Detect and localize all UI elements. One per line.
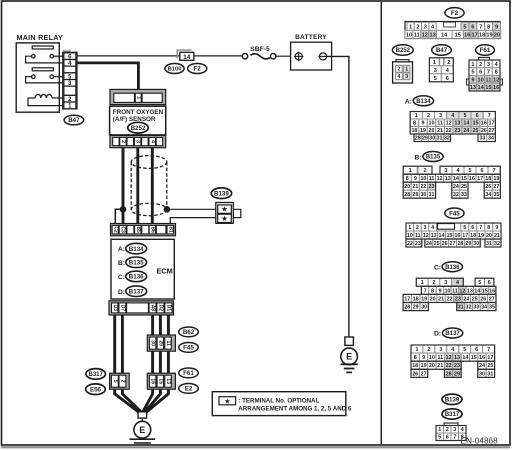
svg-text:5: 5 xyxy=(438,435,441,441)
svg-text:30: 30 xyxy=(479,371,485,377)
connector E56 oval label xyxy=(86,384,106,395)
svg-text:2: 2 xyxy=(424,168,427,174)
svg-text:29: 29 xyxy=(465,241,471,247)
svg-text:12: 12 xyxy=(446,355,452,361)
svg-text:9: 9 xyxy=(495,24,498,30)
connector pinout F45 grid xyxy=(406,223,501,247)
connector B317 oval label xyxy=(86,369,106,380)
svg-text:30: 30 xyxy=(420,192,426,198)
svg-text:12: 12 xyxy=(493,77,499,83)
svg-text:23: 23 xyxy=(454,128,460,134)
svg-text:10: 10 xyxy=(478,77,484,83)
ground E (ECM side) earth bars xyxy=(130,439,156,443)
svg-text:24: 24 xyxy=(463,128,469,134)
connector pinout B47 oval xyxy=(432,45,452,55)
svg-text:11: 11 xyxy=(429,176,435,182)
svg-text:22: 22 xyxy=(446,128,452,134)
svg-text:2: 2 xyxy=(479,62,482,68)
ground E (battery side) earth bars xyxy=(341,364,358,372)
svg-text:B5: B5 xyxy=(135,226,141,233)
svg-text:B100: B100 xyxy=(168,67,182,73)
connector pinout B: B135 grid xyxy=(403,166,500,198)
svg-text:13: 13 xyxy=(470,85,476,91)
wire: ECM pin D1 down through F45 (thick) xyxy=(167,315,170,375)
svg-text:2: 2 xyxy=(446,427,449,433)
svg-text:17: 17 xyxy=(471,32,477,38)
svg-text:6: 6 xyxy=(479,70,482,76)
svg-text:25: 25 xyxy=(487,363,493,369)
wire: B139 shorting loop xyxy=(233,209,241,217)
svg-text:A:: A: xyxy=(118,246,125,253)
svg-text:24: 24 xyxy=(463,296,469,302)
svg-text:7: 7 xyxy=(487,347,490,353)
wire: connector 14 to fuse SBF-5 xyxy=(194,55,243,57)
svg-text:19: 19 xyxy=(421,296,427,302)
svg-text:11: 11 xyxy=(414,32,420,38)
in-line connector 14 (B100/F2) xyxy=(177,50,194,62)
svg-text:F2: F2 xyxy=(194,66,202,73)
svg-text:16: 16 xyxy=(481,121,487,127)
svg-text:★: ★ xyxy=(221,214,228,223)
svg-text:B137: B137 xyxy=(445,331,460,337)
svg-text:22: 22 xyxy=(407,241,413,247)
svg-text:: TERMINAL No. OPTIONAL: : TERMINAL No. OPTIONAL xyxy=(238,397,319,404)
svg-text:EN-04868: EN-04868 xyxy=(460,436,498,446)
svg-text:13: 13 xyxy=(445,176,451,182)
svg-text:6: 6 xyxy=(476,113,479,119)
svg-text:B:: B: xyxy=(415,154,422,161)
svg-text:17: 17 xyxy=(489,121,495,127)
svg-text:3: 3 xyxy=(424,24,427,30)
svg-text:6: 6 xyxy=(446,435,449,441)
wire: relay pin 4 to A/F sensor pin 1 (power, thick) xyxy=(77,63,138,91)
relay K1 contact set 1 xyxy=(26,54,63,63)
svg-text:B6: B6 xyxy=(149,226,155,233)
svg-text:1: 1 xyxy=(135,96,141,99)
connector pinout F2 oval xyxy=(445,8,464,18)
svg-text:3: 3 xyxy=(453,427,456,433)
svg-text:2: 2 xyxy=(427,347,430,353)
wire: E2 pin 13 to ground funnel xyxy=(146,389,168,412)
svg-text:10: 10 xyxy=(406,32,412,38)
svg-text:24: 24 xyxy=(426,241,432,247)
svg-text:10: 10 xyxy=(407,233,413,239)
svg-text:11: 11 xyxy=(437,121,443,127)
svg-text:9: 9 xyxy=(422,355,425,361)
svg-text:18: 18 xyxy=(411,128,417,134)
svg-text:C:: C: xyxy=(434,264,441,271)
ECM top connector strip (pins C2,C3,B5,B6,B1) xyxy=(111,224,176,236)
svg-text:6: 6 xyxy=(475,347,478,353)
svg-text:D3: D3 xyxy=(112,305,118,312)
svg-text:9: 9 xyxy=(471,77,474,83)
svg-text:11: 11 xyxy=(437,355,443,361)
svg-text:18: 18 xyxy=(413,296,419,302)
svg-text:1: 1 xyxy=(415,347,418,353)
svg-text:1: 1 xyxy=(409,168,412,174)
svg-text:B139: B139 xyxy=(214,190,229,197)
svg-text:25: 25 xyxy=(461,184,467,190)
svg-text:27: 27 xyxy=(421,371,427,377)
connector F61 oval label (diagram) xyxy=(179,368,199,378)
svg-text:7: 7 xyxy=(479,24,482,30)
svg-text:14: 14 xyxy=(453,176,459,182)
connector pinout F61 grid xyxy=(467,57,503,91)
svg-text:15: 15 xyxy=(446,233,452,239)
svg-text:D:: D: xyxy=(434,331,441,338)
svg-text:16: 16 xyxy=(464,32,470,38)
svg-text:4: 4 xyxy=(397,74,400,80)
svg-text:15: 15 xyxy=(485,85,491,91)
svg-text:13: 13 xyxy=(430,32,436,38)
svg-text:1: 1 xyxy=(421,280,424,286)
svg-text:15: 15 xyxy=(157,378,163,384)
svg-text:1: 1 xyxy=(433,60,436,66)
svg-text:14: 14 xyxy=(183,54,191,61)
svg-text:19: 19 xyxy=(420,128,426,134)
svg-text:19: 19 xyxy=(486,32,492,38)
svg-text:D7: D7 xyxy=(119,305,125,312)
connector B62/F45 body (pins 30,29,11) xyxy=(147,335,175,351)
svg-text:7: 7 xyxy=(488,113,491,119)
svg-text:7: 7 xyxy=(453,435,456,441)
svg-text:10: 10 xyxy=(420,176,426,182)
svg-text:5: 5 xyxy=(463,24,466,30)
svg-text:27: 27 xyxy=(450,241,456,247)
svg-text:25: 25 xyxy=(473,128,479,134)
svg-text:B137: B137 xyxy=(129,288,144,295)
relay K1 coil xyxy=(28,94,63,105)
svg-text:19: 19 xyxy=(493,176,499,182)
svg-text:27: 27 xyxy=(489,128,495,134)
svg-text:30: 30 xyxy=(421,304,427,310)
svg-text:B252: B252 xyxy=(131,125,146,132)
svg-text:25: 25 xyxy=(434,241,440,247)
ground E (battery side) connector square xyxy=(345,337,354,345)
svg-text:12: 12 xyxy=(446,121,452,127)
svg-text:34: 34 xyxy=(481,304,487,310)
svg-text:29: 29 xyxy=(413,304,419,310)
svg-text:23: 23 xyxy=(454,363,460,369)
svg-text:30: 30 xyxy=(150,340,156,346)
svg-text:13: 13 xyxy=(431,233,437,239)
svg-text:17: 17 xyxy=(487,355,493,361)
svg-text:18: 18 xyxy=(412,363,418,369)
svg-text:29: 29 xyxy=(157,340,163,346)
note box: star terminal arrangement xyxy=(212,392,352,416)
relay K1 body xyxy=(16,43,59,112)
svg-text:15: 15 xyxy=(455,32,461,38)
svg-text:29: 29 xyxy=(454,371,460,377)
svg-text:15: 15 xyxy=(473,121,479,127)
svg-text:3: 3 xyxy=(444,280,447,286)
svg-text:17: 17 xyxy=(477,176,483,182)
svg-text:7: 7 xyxy=(479,225,482,231)
svg-text:E2: E2 xyxy=(185,386,193,393)
svg-text:E: E xyxy=(346,352,352,362)
svg-text:32: 32 xyxy=(444,136,450,142)
svg-text:4: 4 xyxy=(457,168,460,174)
svg-text:15: 15 xyxy=(461,176,467,182)
connector B317 body (pins 5,2) xyxy=(110,373,130,389)
svg-text:2: 2 xyxy=(119,380,125,383)
svg-text:14: 14 xyxy=(474,288,480,294)
svg-text:7: 7 xyxy=(424,288,427,294)
svg-text:4: 4 xyxy=(149,140,155,143)
svg-text:ECM: ECM xyxy=(157,266,173,275)
ground E (ECM side) circle xyxy=(134,421,151,438)
connector pinout F61 oval xyxy=(476,45,495,55)
svg-text:9: 9 xyxy=(439,288,442,294)
wire: junction branch to ECM pin C2 xyxy=(115,209,123,225)
connector pinout B252 oval xyxy=(392,45,413,55)
svg-text:34: 34 xyxy=(488,136,494,142)
svg-text:30: 30 xyxy=(429,136,435,142)
svg-text:12: 12 xyxy=(423,233,429,239)
svg-text:ARRANGEMENT AMONG 1, 2, 5 AND: ARRANGEMENT AMONG 1, 2, 5 AND 6 xyxy=(238,406,352,413)
svg-text:13: 13 xyxy=(454,355,460,361)
svg-text:16: 16 xyxy=(493,85,499,91)
svg-text:6: 6 xyxy=(471,24,474,30)
ground E (battery side) circle xyxy=(341,348,358,365)
svg-text:3: 3 xyxy=(135,140,141,143)
svg-text:14: 14 xyxy=(439,233,445,239)
svg-text:4: 4 xyxy=(431,225,434,231)
wire: E2 pin 16 to ground funnel xyxy=(143,389,153,412)
svg-text:5: 5 xyxy=(469,168,472,174)
svg-text:21: 21 xyxy=(437,128,443,134)
svg-text:24: 24 xyxy=(453,184,459,190)
svg-text:1: 1 xyxy=(471,62,474,68)
wire: fuse SBF-5 to battery positive xyxy=(276,55,295,57)
svg-text:1: 1 xyxy=(405,67,408,73)
svg-text:B134: B134 xyxy=(416,99,431,105)
svg-text:3: 3 xyxy=(434,68,437,74)
svg-text:3: 3 xyxy=(439,113,442,119)
svg-text:20: 20 xyxy=(430,296,436,302)
svg-text:16: 16 xyxy=(454,233,460,239)
svg-text:21: 21 xyxy=(437,363,443,369)
svg-text:D:: D: xyxy=(118,289,125,296)
connector B139 oval label xyxy=(211,188,231,199)
svg-text:2: 2 xyxy=(416,225,419,231)
svg-text:B317: B317 xyxy=(445,412,460,418)
svg-text:1: 1 xyxy=(408,225,411,231)
svg-text:11: 11 xyxy=(415,233,421,239)
svg-text:20: 20 xyxy=(429,363,435,369)
svg-text:F45: F45 xyxy=(449,210,460,217)
svg-text:2: 2 xyxy=(397,67,400,73)
svg-text:B136: B136 xyxy=(129,274,144,281)
relay K1 armature bar 1 xyxy=(32,46,53,49)
svg-text:22: 22 xyxy=(446,363,452,369)
svg-text:9: 9 xyxy=(414,176,417,182)
svg-text:18: 18 xyxy=(470,233,476,239)
svg-text:31: 31 xyxy=(437,136,443,142)
svg-text:16: 16 xyxy=(489,288,495,294)
svg-text:7: 7 xyxy=(487,70,490,76)
svg-text:14: 14 xyxy=(462,355,468,361)
svg-text:12: 12 xyxy=(422,32,428,38)
svg-text:11: 11 xyxy=(452,288,458,294)
svg-text:16: 16 xyxy=(150,378,156,384)
svg-text:6: 6 xyxy=(471,225,474,231)
svg-text:29: 29 xyxy=(412,192,418,198)
connector pinout B139 oval xyxy=(442,394,462,404)
wire: sensor pin 4 down to ECM (thick) xyxy=(151,148,154,225)
svg-text:4: 4 xyxy=(456,280,459,286)
svg-text:B252: B252 xyxy=(396,48,411,54)
connector B62 oval label xyxy=(179,327,199,337)
svg-text:F2: F2 xyxy=(451,10,459,17)
svg-text:22: 22 xyxy=(447,296,453,302)
joint connector B139 body with star terminals xyxy=(216,203,234,224)
svg-text:16: 16 xyxy=(469,176,475,182)
relay K1 pin column (pins 6,4,5,3,2,1) xyxy=(63,50,71,53)
svg-text:33: 33 xyxy=(473,304,479,310)
svg-text:34: 34 xyxy=(485,192,491,198)
svg-text:21: 21 xyxy=(438,296,444,302)
svg-text:13: 13 xyxy=(165,378,171,384)
svg-text:C:: C: xyxy=(118,274,125,281)
wire: sensor pin 3 down to ECM (thick) xyxy=(136,148,139,225)
svg-text:26: 26 xyxy=(412,371,418,377)
connector B47 oval label xyxy=(64,115,84,125)
wire: joint connector B139 bottom pin to ECM pin B1 xyxy=(170,218,217,225)
svg-text:7: 7 xyxy=(493,168,496,174)
svg-text:30: 30 xyxy=(473,241,479,247)
wire: shield to joint connector B139 top pin xyxy=(167,208,218,210)
svg-text:14: 14 xyxy=(441,32,448,38)
svg-text:33: 33 xyxy=(461,192,467,198)
relay K1 armature bar 2 xyxy=(32,68,53,71)
wire: ECM pin A8 down through F45 (thick) xyxy=(151,315,154,375)
svg-text:2: 2 xyxy=(120,140,126,143)
A/F sensor top connector strip (pin 1) xyxy=(110,89,166,104)
relay K1 contact set 2 xyxy=(26,75,63,83)
svg-text:5: 5 xyxy=(463,225,466,231)
connector B100 oval label xyxy=(165,64,184,74)
svg-text:C2: C2 xyxy=(112,226,118,233)
svg-text:11: 11 xyxy=(485,77,491,83)
svg-text:1: 1 xyxy=(415,113,418,119)
svg-text:BATTERY: BATTERY xyxy=(295,34,327,41)
wire: sensor pin 2 down to ECM (thick) xyxy=(122,148,125,225)
svg-text:14: 14 xyxy=(478,85,485,91)
connector pinout C: B136 grid xyxy=(403,278,496,310)
battery positive terminal xyxy=(294,52,303,61)
svg-text:27: 27 xyxy=(493,184,499,190)
svg-text:A8: A8 xyxy=(150,305,156,312)
svg-text:8: 8 xyxy=(495,70,498,76)
svg-text:16: 16 xyxy=(479,355,485,361)
svg-text:9: 9 xyxy=(421,121,424,127)
svg-text:31: 31 xyxy=(429,192,435,198)
svg-text:28: 28 xyxy=(457,241,463,247)
svg-text:15: 15 xyxy=(482,288,488,294)
svg-text:18: 18 xyxy=(485,176,491,182)
svg-text:D1: D1 xyxy=(165,305,171,312)
ECM U2 body xyxy=(111,239,174,299)
connector pinout F2 grid xyxy=(405,22,501,39)
svg-text:20: 20 xyxy=(486,233,492,239)
svg-text:E56: E56 xyxy=(90,386,102,393)
svg-text:1: 1 xyxy=(409,24,412,30)
wire: ECM pin D3 down (thick) xyxy=(113,315,116,375)
connector E2 oval label xyxy=(179,384,199,394)
svg-text:21: 21 xyxy=(412,184,418,190)
svg-text:28: 28 xyxy=(404,192,410,198)
svg-text:5: 5 xyxy=(471,70,474,76)
wire: relay pin 6 to connector 14 xyxy=(77,55,180,57)
svg-text:19: 19 xyxy=(478,233,484,239)
svg-text:20: 20 xyxy=(404,184,410,190)
svg-text:17: 17 xyxy=(404,296,410,302)
svg-text:26: 26 xyxy=(442,241,448,247)
svg-text:21: 21 xyxy=(494,233,500,239)
svg-text:E: E xyxy=(139,425,145,435)
svg-text:27: 27 xyxy=(489,296,495,302)
svg-text:8: 8 xyxy=(414,355,417,361)
connector F45 oval label xyxy=(179,343,199,353)
svg-text:9: 9 xyxy=(495,225,498,231)
svg-text:B139: B139 xyxy=(445,397,460,403)
oxygen sensor U1 FRONT OXYGEN (A/F) SENSOR body xyxy=(110,106,166,135)
svg-text:5: 5 xyxy=(112,380,118,383)
svg-text:1: 1 xyxy=(438,427,441,433)
svg-text:B:: B: xyxy=(118,260,125,267)
svg-text:29: 29 xyxy=(422,136,428,142)
wire: B317 pin 5 to ground funnel xyxy=(115,389,139,412)
svg-text:23: 23 xyxy=(429,184,435,190)
svg-text:B47: B47 xyxy=(436,47,448,54)
connector pinout B139/B317 grid xyxy=(436,423,466,441)
wire: B317 pin 2 to ground funnel xyxy=(122,389,141,412)
svg-text:13: 13 xyxy=(467,288,473,294)
svg-text:20: 20 xyxy=(494,32,500,38)
connector pinout F45 oval xyxy=(445,208,464,218)
svg-text:35: 35 xyxy=(493,192,499,198)
svg-text:3: 3 xyxy=(424,225,427,231)
svg-text:B135: B135 xyxy=(129,260,144,267)
svg-text:13: 13 xyxy=(454,121,460,127)
ECM bottom connector strip (pins D3,D7,A8,D2,D1) xyxy=(109,301,174,315)
svg-text:6: 6 xyxy=(488,280,491,286)
svg-text:12: 12 xyxy=(459,288,465,294)
connector pinout B317 oval xyxy=(442,409,462,419)
svg-text:D2: D2 xyxy=(157,305,163,312)
svg-text:31: 31 xyxy=(486,241,492,247)
connector pinout D: B137 grid xyxy=(411,345,495,377)
svg-text:3: 3 xyxy=(405,74,408,80)
svg-text:10: 10 xyxy=(429,355,435,361)
connector pinout B252 grid xyxy=(393,60,413,83)
svg-text:B47: B47 xyxy=(68,117,80,124)
svg-text:5: 5 xyxy=(463,113,466,119)
svg-text:8: 8 xyxy=(406,176,409,182)
svg-text:A:: A: xyxy=(405,99,412,106)
svg-text:B134: B134 xyxy=(129,246,144,253)
svg-text:★: ★ xyxy=(221,205,228,214)
svg-text:15: 15 xyxy=(471,355,477,361)
svg-text:B62: B62 xyxy=(183,329,195,336)
svg-text:B1: B1 xyxy=(167,226,173,233)
svg-text:10: 10 xyxy=(444,288,450,294)
fuse SBF-5 symbol xyxy=(242,54,276,59)
svg-text:3: 3 xyxy=(439,347,442,353)
svg-text:MAIN RELAY: MAIN RELAY xyxy=(17,33,64,42)
svg-text:32: 32 xyxy=(466,304,472,310)
